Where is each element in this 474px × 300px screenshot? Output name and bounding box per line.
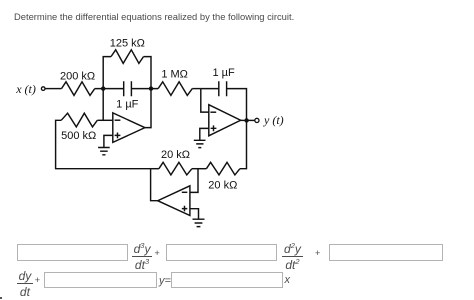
U2 minus symbol <box>210 111 216 113</box>
U1 plus symbol <box>115 133 121 139</box>
U3 output wire to feedback rail <box>151 169 158 201</box>
fraction d2y/dt2 <box>282 243 303 271</box>
answer box a3 <box>17 244 129 262</box>
fraction d3y/dt3 <box>132 243 153 271</box>
U1 output wire up to node B <box>145 89 151 128</box>
wire input to R 200k <box>46 88 62 90</box>
U1 noninverting input wire <box>104 135 113 147</box>
svg-text:125 kΩ: 125 kΩ <box>110 38 145 50</box>
capacitor C1 1uF plates <box>124 81 132 96</box>
svg-text:1 MΩ: 1 MΩ <box>161 68 188 80</box>
wire 500k to U1 minus input <box>97 119 113 121</box>
wire output node down to R 20k right <box>240 120 247 168</box>
U2 plus symbol <box>211 125 217 131</box>
svg-text:1 µF: 1 µF <box>212 67 235 79</box>
resistor 125 kOhm <box>111 50 144 64</box>
wire feedback resistor to output corner <box>151 168 159 170</box>
y equals <box>159 275 171 287</box>
capacitor C2 1uF plates <box>219 81 227 96</box>
resistor 1 MOhm <box>158 82 192 96</box>
junction to U3 minus input <box>190 169 198 193</box>
fraction dy/dt <box>17 270 34 298</box>
feedback branch right riser <box>144 57 152 89</box>
wire R200k to node A to C1 <box>95 88 124 90</box>
tee down to U2 minus input <box>201 89 209 113</box>
title <box>14 11 294 22</box>
answer box b0 <box>171 272 283 289</box>
wire 1M to tee <box>192 88 201 90</box>
feedback wire from bottom op-amp to 500k <box>56 120 151 168</box>
node B <box>149 86 153 90</box>
wire node A down to op-amp U1 inverting input <box>102 89 104 121</box>
wire between 20k resistors <box>192 168 207 170</box>
ground G3 <box>193 219 205 226</box>
U2 noninverting input wire <box>200 128 209 140</box>
svg-text:20 kΩ: 20 kΩ <box>208 180 237 192</box>
op-amp U1 <box>113 113 145 142</box>
answer box a1 <box>329 244 444 262</box>
svg-text:200 kΩ: 200 kΩ <box>60 71 95 83</box>
resistor 200 kOhm <box>62 82 95 96</box>
feedback branch left riser <box>103 57 111 89</box>
wire C1 to node B <box>131 88 158 90</box>
U1 minus symbol <box>115 119 121 121</box>
wire tee to C2 <box>201 88 219 90</box>
page edge artifact <box>0 297 2 299</box>
svg-text:500 kΩ: 500 kΩ <box>61 130 96 142</box>
op-amp U3 <box>158 186 190 216</box>
wire C2 to output node riser <box>227 89 247 121</box>
U3 minus symbol <box>182 191 188 193</box>
answer box a0 <box>44 272 157 289</box>
resistor 20 kOhm right <box>206 162 240 175</box>
U3 noninverting input wire <box>190 209 199 220</box>
output terminal y(t) <box>255 118 259 122</box>
ground G1 <box>98 148 110 155</box>
resistor 500 kOhm <box>61 113 97 127</box>
op-amp U2 <box>209 105 241 136</box>
svg-text:x (t): x (t) <box>15 82 36 96</box>
input terminal x(t) <box>41 87 45 91</box>
ground G2 <box>194 140 206 147</box>
svg-text:20 kΩ: 20 kΩ <box>161 149 190 161</box>
node A <box>101 86 105 90</box>
resistor 20 kOhm feedback <box>159 162 192 175</box>
svg-text:1 µF: 1 µF <box>116 98 139 110</box>
output node <box>244 118 248 122</box>
x variable <box>285 274 291 286</box>
U3 plus symbol <box>182 206 188 212</box>
answer box a2 <box>166 244 278 262</box>
U2 output wire <box>241 119 255 121</box>
svg-text:y (t): y (t) <box>263 113 284 127</box>
